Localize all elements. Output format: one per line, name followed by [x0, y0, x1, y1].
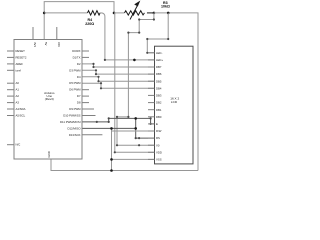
op-amp U1 Arduino Uno box: [14, 40, 82, 160]
svg-text:LCD: LCD: [171, 100, 178, 104]
pin RESET2: [7, 56, 14, 58]
svg-text:D13/SCK: D13/SCK: [69, 133, 81, 137]
wire D2 to DB7: [82, 64, 155, 67]
pin LED-: [148, 52, 155, 54]
node bends LED- wire: [167, 38, 169, 40]
svg-text:DB4: DB4: [156, 86, 162, 90]
pin DB4: [148, 87, 155, 89]
node junction trunk on D12 row: [110, 127, 113, 130]
pin D13/SCK: [82, 134, 102, 136]
label top pins: [33, 42, 61, 47]
svg-text:D2: D2: [77, 62, 81, 66]
wire GND right run: [154, 13, 198, 171]
pin DB2: [148, 102, 155, 104]
pin RS: [148, 137, 155, 139]
wire 5V to R4: [44, 12, 87, 14]
pin DB7: [148, 66, 155, 68]
pin LED+: [148, 59, 155, 61]
label LCD pins: [156, 51, 163, 162]
svg-text:A2: A2: [16, 94, 20, 98]
wire pot right lead: [147, 12, 154, 14]
wire pot left lead: [114, 12, 125, 14]
svg-text:D3 PWM: D3 PWM: [69, 68, 81, 72]
wire D11 to E: [82, 118, 155, 124]
pin DB5: [148, 80, 155, 82]
pin DB3: [148, 94, 155, 96]
svg-text:D9 PWM: D9 PWM: [69, 107, 81, 111]
pin D8: [82, 102, 89, 104]
svg-text:RESET2: RESET2: [16, 55, 27, 59]
wire 5V top run: [44, 2, 114, 40]
wire D3 to DB6: [82, 70, 155, 74]
svg-text:D10 PWM/SS: D10 PWM/SS: [63, 114, 80, 118]
svg-text:D5 PWM: D5 PWM: [69, 81, 81, 85]
pin DB6: [148, 73, 155, 75]
pin A4 SDA: [7, 108, 14, 110]
svg-text:A4/SDA: A4/SDA: [16, 107, 26, 111]
svg-text:VDD: VDD: [156, 150, 162, 154]
svg-text:R/W: R/W: [156, 129, 162, 133]
svg-text:DB0: DB0: [156, 115, 162, 119]
svg-text:D8: D8: [77, 101, 81, 105]
pin DB0: [148, 116, 155, 118]
wire pot wiper to V0: [117, 13, 155, 145]
svg-text:GND: GND: [47, 151, 51, 157]
svg-text:D7: D7: [77, 94, 81, 98]
node bend 5V trunk at VDD row: [114, 151, 116, 153]
label right pins: [60, 49, 81, 137]
pin A5 SCL: [7, 115, 14, 117]
svg-text:5V: 5V: [44, 42, 48, 46]
label R3 value: [161, 1, 170, 9]
svg-text:VSS: VSS: [156, 158, 162, 162]
pin E: [148, 123, 155, 125]
svg-text:ioref: ioref: [16, 68, 22, 72]
svg-text:A0: A0: [16, 81, 20, 85]
svg-text:V0: V0: [156, 143, 160, 147]
pin 3V3 top: [32, 27, 34, 40]
svg-text:N/C: N/C: [16, 143, 21, 147]
wire RS feed vertical: [136, 118, 155, 138]
pin D6 PWM: [82, 89, 89, 91]
wire D5 to DB4: [82, 83, 155, 88]
svg-text:DB6: DB6: [156, 72, 162, 76]
svg-text:LED+: LED+: [156, 58, 163, 62]
svg-text:LED-: LED-: [156, 51, 162, 55]
pin A0: [7, 82, 14, 84]
pin GND bottom: [47, 151, 51, 157]
wire R4 to LCD LED+: [100, 13, 154, 60]
svg-text:RS: RS: [156, 136, 160, 140]
svg-text:(Rev3): (Rev3): [45, 97, 54, 101]
node bends V0 wire: [153, 18, 155, 20]
svg-text:E: E: [156, 122, 158, 126]
wire D4 to DB5: [82, 77, 155, 81]
potentiometer R3 wiper arrow: [130, 2, 139, 20]
pin DB1: [148, 109, 155, 111]
svg-text:D12/MISO: D12/MISO: [67, 126, 81, 130]
pin A2: [7, 95, 14, 97]
node junction D12/RS vertical: [134, 117, 137, 120]
label LCD: [170, 97, 179, 105]
pin R/W: [148, 130, 155, 132]
pin A1: [7, 89, 14, 91]
svg-text:DB7: DB7: [156, 65, 162, 69]
node bend R4 wire at LED+ row: [104, 59, 106, 61]
node pot right junction: [153, 12, 156, 15]
svg-text:D0/RX: D0/RX: [72, 49, 80, 53]
potentiometer R3: [125, 11, 145, 15]
node bendpoint on LED+ wire: [133, 59, 136, 62]
pin ioref: [7, 69, 14, 71]
node GND bottom junction: [110, 169, 113, 172]
LCD U2 box: [155, 46, 194, 164]
pin AREF: [7, 63, 14, 65]
label Arduino Uno (Rev3): [44, 91, 55, 101]
svg-text:A5/SCL: A5/SCL: [16, 114, 26, 118]
pin D7: [82, 95, 89, 97]
svg-text:RESET: RESET: [16, 49, 26, 53]
node 5V pot junction: [113, 12, 116, 15]
wire RW to GND trunk: [112, 130, 155, 132]
svg-text:10kΩ: 10kΩ: [161, 5, 170, 9]
svg-text:A1: A1: [16, 88, 20, 92]
svg-text:DB3: DB3: [156, 94, 162, 98]
svg-text:D4: D4: [77, 75, 81, 79]
pin A3: [7, 102, 14, 104]
pin V0: [148, 144, 155, 146]
svg-text:DB2: DB2: [156, 101, 162, 105]
label R4 value: [85, 18, 94, 26]
svg-text:D1/TX: D1/TX: [73, 55, 81, 59]
pin N/C: [7, 144, 14, 146]
pin D1/TX: [82, 56, 89, 58]
svg-text:AREF: AREF: [16, 62, 24, 66]
pin VSS: [148, 158, 155, 160]
node GND LED- junction: [167, 12, 170, 15]
pin D0/RX: [82, 50, 89, 52]
resistor R4: [88, 11, 101, 15]
svg-text:D6 PWM: D6 PWM: [69, 88, 81, 92]
svg-text:DB1: DB1: [156, 108, 162, 112]
pin VDD: [148, 151, 155, 153]
wire LED- to GND: [147, 13, 168, 53]
node VSS junction: [110, 158, 113, 161]
wire GND bottom run: [51, 159, 198, 171]
wire D12-row trunk down to GND: [111, 128, 113, 170]
svg-text:A3: A3: [16, 101, 20, 105]
node 5V junction at Arduino 5V pin: [43, 12, 46, 15]
pin D10 PWM/SS: [82, 115, 96, 117]
pin D9 PWM: [82, 108, 94, 110]
pin VIN top: [56, 27, 58, 40]
svg-text:3V3: 3V3: [33, 42, 37, 47]
svg-text:VIN: VIN: [57, 42, 61, 47]
pin RESET: [7, 50, 14, 52]
svg-text:220Ω: 220Ω: [85, 22, 94, 26]
svg-text:D11 PWM/MOSI: D11 PWM/MOSI: [60, 120, 81, 124]
svg-text:DB5: DB5: [156, 79, 162, 83]
wire D12 row: [82, 127, 136, 129]
wire 5V trunk down to VDD: [114, 13, 155, 152]
wire VSS to GND trunk: [112, 158, 155, 160]
label left pins: [16, 49, 27, 147]
